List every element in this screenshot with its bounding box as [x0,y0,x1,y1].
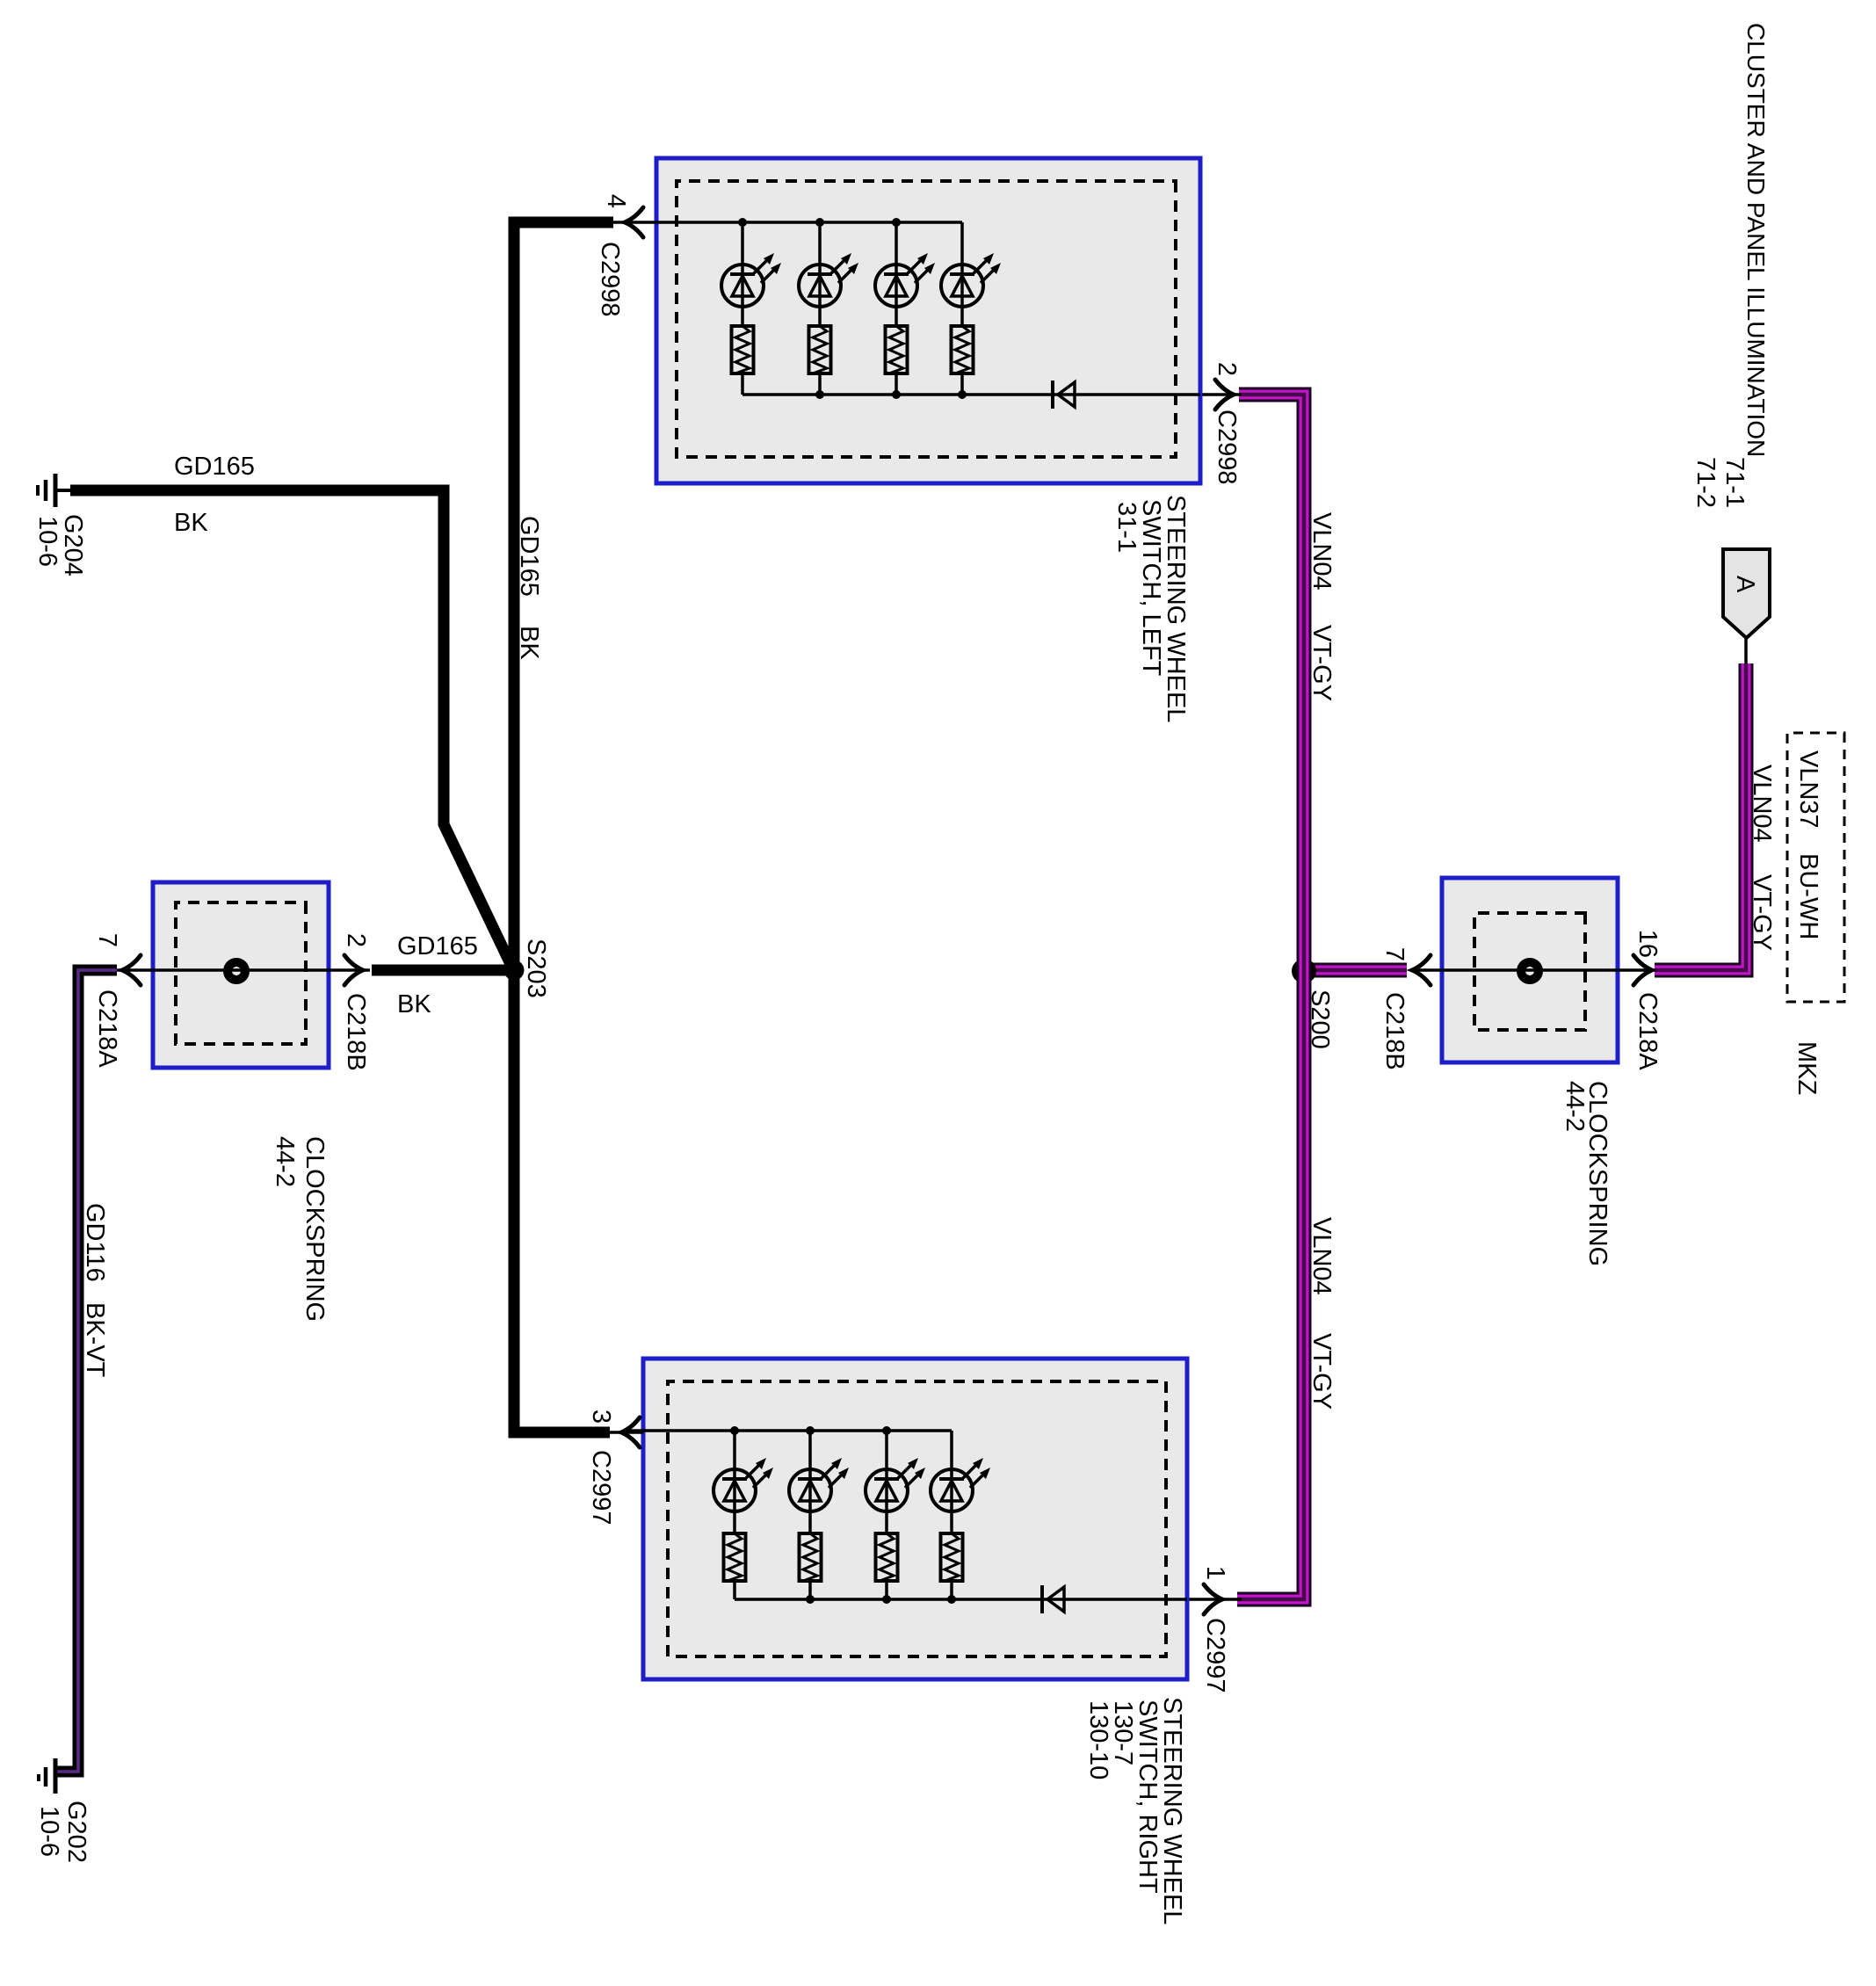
svg-text:MKZ: MKZ [1793,1041,1821,1095]
LED lamp [875,253,935,307]
svg-text:31-1: 31-1 [1112,502,1141,553]
wire VLN04 VT-GY from A to clockspring pin 16 [1655,663,1746,970]
junction dot branch1/feed rail [738,218,747,227]
svg-text:VLN37: VLN37 [1794,750,1822,829]
wire branch return [808,1583,812,1599]
LED lamp [866,1458,925,1511]
wire branch return [733,1583,736,1599]
svg-text:3: 3 [587,1410,615,1424]
svg-text:CLUSTER AND PANEL ILLUMINATION: CLUSTER AND PANEL ILLUMINATION [1742,23,1770,457]
wire branch return [960,373,964,395]
resistor [886,326,908,373]
svg-text:S203: S203 [522,939,550,998]
svg-text:GD165: GD165 [397,932,478,960]
junction dot branch2/return rail [815,390,824,399]
LED feed rail (pin 4 side) [611,221,962,224]
svg-text:4: 4 [602,194,630,208]
svg-text:C218A: C218A [1633,992,1662,1070]
wire branch feed [885,1431,888,1533]
svg-text:STEERING WHEEL: STEERING WHEEL [1158,1697,1186,1924]
resistor [952,326,974,373]
wire GD165 BK (pin4 - S203 - pin3 right switch) [514,222,613,1432]
wire branch return [741,373,744,395]
wire branch feed [733,1431,736,1533]
junction dot branch3/return rail [892,390,901,399]
junction dot branch3/return rail [882,1595,891,1604]
connector arrow pin 7 C218B [1412,955,1431,985]
svg-text:C2997: C2997 [587,1450,615,1525]
svg-text:71-1: 71-1 [1720,457,1749,508]
clockspring (right) box [1442,878,1618,1062]
resistor [800,1533,822,1581]
wire GD165 BK from S203 to ground G204 [70,490,511,964]
svg-text:C218A: C218A [93,989,121,1068]
connector arrow pin 2 C2998 [1215,380,1234,410]
svg-text:BK: BK [515,626,543,660]
wire stub pin 1 into box [1187,1598,1242,1601]
wire through left clockspring [117,968,370,972]
junction dot branch2/return rail [806,1595,815,1604]
svg-text:C218B: C218B [1380,992,1409,1070]
wire stub pin 2 into box [1200,393,1242,396]
svg-text:1: 1 [1201,1566,1229,1580]
svg-text:2: 2 [1213,362,1241,376]
clockspring (left) inner dashed outline [176,902,306,1044]
diode (left switch) [1053,381,1075,409]
svg-text:BK-VT: BK-VT [81,1302,109,1378]
svg-text:A: A [1731,576,1759,593]
junction dot branch4/return rail [958,390,967,399]
resistor [809,326,831,373]
LED return rail (pin 1 side) [735,1598,1187,1601]
svg-text:44-2: 44-2 [1561,1081,1589,1132]
wire branch feed [818,222,822,326]
wire branch return [818,373,822,395]
junction dot branch4/return rail [947,1595,956,1604]
clockspring coil symbol [1521,962,1539,980]
wire stub pin 3 below box [609,1431,643,1434]
svg-text:VT-GY: VT-GY [1748,874,1776,951]
svg-text:C2998: C2998 [596,242,624,316]
off-page connector A (cluster and panel illumination feed) [1723,549,1770,638]
connector arrow pin 4 C2998 [625,207,643,237]
wire VLN04 VT-GY from C218B to splice S200 [1304,963,1407,978]
clockspring coil symbol (left) [228,962,245,980]
wire VLN04 VT-GY bus (switch left pin2 - S200 - switch right pin1) [1237,395,1304,1599]
LED branch 2 (right switch) [789,1431,849,1599]
splice S200 [1292,959,1316,983]
svg-text:7: 7 [1380,947,1409,961]
svg-text:BK: BK [397,990,431,1018]
svg-text:SWITCH, LEFT: SWITCH, LEFT [1137,499,1165,677]
resistor [724,1533,746,1581]
LED lamp [789,1458,849,1511]
wire through clockspring (pin 16 to pin 7) [1416,968,1655,972]
LED branch 3 (right switch) [866,1431,925,1599]
resistor [876,1533,898,1581]
wire branch feed [741,222,744,326]
LED lamp [941,253,1001,307]
junction dot branch1/feed rail [730,1426,739,1435]
ground G204 [38,474,75,507]
svg-text:BK: BK [174,509,208,537]
svg-text:CLOCKSPRING: CLOCKSPRING [301,1136,329,1322]
wire: lead from connector A [1744,638,1748,665]
svg-text:G204: G204 [59,514,87,576]
diode (right switch) [1042,1585,1064,1613]
ground G202 [39,1758,55,1794]
svg-text:VT-GY: VT-GY [1307,625,1336,701]
svg-text:16: 16 [1633,930,1662,958]
svg-text:VLN04: VLN04 [1748,765,1776,843]
LED branch 1 (right switch) [713,1431,773,1599]
resistor [941,1533,963,1581]
connector arrow pin 2 C218B [344,955,363,985]
splice S203 [504,960,525,981]
wire branch return [895,373,898,395]
wire GD165 BK from S203 down to clockspring pin 2 C218B [372,965,509,976]
svg-text:STEERING WHEEL: STEERING WHEEL [1162,495,1190,722]
svg-text:C2998: C2998 [1213,410,1241,484]
svg-text:GD165: GD165 [174,453,255,481]
junction dot branch3/feed rail [892,218,901,227]
wire branch return [950,1583,953,1599]
LED branch 4 (left switch) [941,222,1001,395]
junction dot branch2/feed rail [815,218,824,227]
svg-text:C218B: C218B [342,993,370,1071]
junction dot branch2/feed rail [806,1426,815,1435]
svg-text:VLN04: VLN04 [1307,512,1336,591]
svg-text:7: 7 [93,933,121,947]
resistor [732,326,754,373]
connector arrow pin 16 C218A [1633,955,1652,985]
svg-text:VT-GY: VT-GY [1307,1333,1336,1410]
wire branch feed [950,1431,953,1533]
LED lamp [799,253,858,307]
svg-text:2: 2 [342,933,370,947]
LED lamp [721,253,781,307]
clockspring (left) box [153,882,329,1068]
svg-text:SWITCH, RIGHT: SWITCH, RIGHT [1134,1700,1162,1894]
connector arrow pin 3 C2997 [621,1417,640,1447]
steering wheel switch right: dashed outline [668,1381,1166,1656]
svg-text:44-2: 44-2 [271,1136,299,1187]
wire branch feed [808,1431,812,1533]
LED branch 3 (left switch) [875,222,935,395]
svg-text:BU-WH: BU-WH [1794,853,1822,939]
svg-text:71-2: 71-2 [1691,457,1720,508]
steering wheel switch left: dashed outline [677,181,1176,457]
LED branch 4 (right switch) [931,1431,990,1599]
wire branch return [885,1583,888,1599]
connector arrow pin 1 C2997 [1204,1584,1222,1614]
svg-text:130-10: 130-10 [1084,1700,1112,1779]
svg-text:G202: G202 [62,1801,91,1863]
svg-text:GD116: GD116 [81,1203,109,1282]
svg-text:C2997: C2997 [1201,1618,1229,1692]
LED lamp [713,1458,773,1511]
steering wheel switch right: box [643,1359,1187,1679]
svg-text:10-6: 10-6 [35,1806,63,1857]
svg-text:130-7: 130-7 [1109,1700,1137,1765]
steering wheel switch left: box [656,158,1200,483]
connector arrow pin 7 C218A [122,955,141,985]
LED return rail (pin 2 side) [742,393,1200,396]
wire branch feed [895,222,898,326]
LED branch 1 (left switch) [721,222,781,395]
LED branch 2 (left switch) [799,222,858,395]
dashed option box VLN37 BU-WH [1787,733,1844,1002]
svg-text:10-6: 10-6 [33,516,62,567]
LED feed rail (pin 3 side) [627,1429,952,1432]
wire branch feed [960,222,964,326]
svg-text:VLN04: VLN04 [1307,1217,1336,1295]
wire GD116 BK-VT from C218A to ground G202 [57,970,117,1772]
junction dot branch3/feed rail [882,1426,891,1435]
svg-text:GD165: GD165 [515,516,543,597]
clockspring inner dashed outline [1474,913,1585,1030]
LED lamp [931,1458,990,1511]
